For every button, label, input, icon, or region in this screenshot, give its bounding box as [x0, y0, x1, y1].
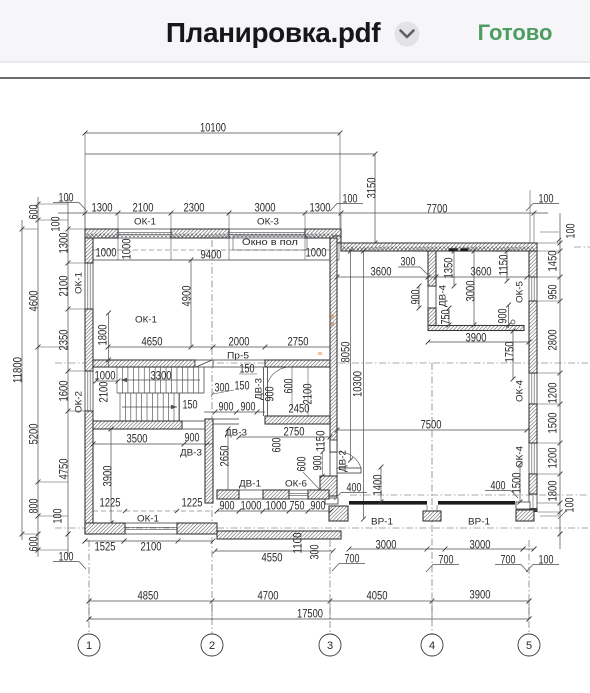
dimension 4850 4700 4050 3900 axis row: [89, 600, 529, 602]
svg-text:2100: 2100: [133, 200, 154, 214]
svg-text:3000: 3000: [376, 537, 397, 551]
svg-text:ОК-1: ОК-1: [137, 514, 159, 525]
svg-text:600: 600: [281, 378, 295, 393]
dashed line 9400: [93, 249, 330, 251]
svg-text:900: 900: [311, 498, 326, 512]
svg-text:1000: 1000: [95, 368, 116, 382]
page top rule: [0, 77, 590, 79]
svg-text:2650: 2650: [217, 445, 231, 466]
door ДВ-3 second opening: [213, 418, 239, 420]
svg-text:2100: 2100: [96, 381, 110, 402]
dimension 3900 room rotated: [110, 429, 112, 523]
axis line 2 vertical: [211, 240, 213, 634]
axis circle 1: [78, 634, 100, 656]
svg-text:4650: 4650: [142, 334, 163, 348]
axis circle 3: [319, 634, 341, 656]
wall junction piece top: [333, 236, 341, 243]
svg-text:750: 750: [438, 309, 452, 324]
svg-text:1300: 1300: [310, 200, 331, 214]
svg-text:300: 300: [307, 544, 321, 559]
gate lintel ВР-1 right part: [438, 501, 515, 505]
svg-text:3000: 3000: [463, 280, 477, 301]
door ДВ-3 opening in top wall: [182, 420, 205, 422]
dimension 3900 below bathroom: [428, 341, 529, 343]
wall exterior right pier top: [529, 251, 537, 277]
svg-text:1400: 1400: [370, 474, 384, 495]
svg-text:1000: 1000: [266, 498, 287, 512]
dimension 3000 bathroom rotated: [473, 251, 475, 325]
svg-text:100: 100: [563, 223, 577, 238]
svg-text:1200: 1200: [545, 382, 559, 403]
dimension 1350 1150 rotated: [453, 251, 455, 286]
svg-text:2800: 2800: [545, 329, 559, 350]
window ОК-4 right wall upper: [528, 373, 530, 404]
chevron button: [395, 22, 420, 47]
svg-text:ВР-1: ВР-1: [371, 517, 393, 528]
dimension 1750 rotated: [512, 331, 514, 379]
svg-text:3000: 3000: [255, 200, 276, 214]
svg-text:4: 4: [429, 640, 435, 652]
window ОК-5 right wall: [528, 277, 530, 301]
svg-text:7500: 7500: [421, 417, 442, 431]
dimension 2750 corridor: [239, 436, 330, 438]
svg-text:300: 300: [401, 254, 416, 268]
axis circle 4: [421, 634, 443, 656]
svg-text:3300: 3300: [151, 368, 172, 382]
wall exterior left lower pier: [85, 411, 93, 534]
svg-text:150: 150: [240, 361, 255, 375]
svg-text:11800: 11800: [10, 357, 24, 383]
svg-text:150: 150: [183, 397, 198, 411]
wall exterior left middle pier: [85, 309, 93, 371]
svg-text:1100: 1100: [290, 532, 304, 553]
right fine dimension column: [559, 213, 561, 549]
door ДВ-4 opening: [427, 286, 429, 308]
dimension 3150 vertical: [85, 153, 375, 155]
stairs upper flight: [116, 367, 118, 393]
svg-text:600: 600: [26, 204, 40, 219]
svg-text:2350: 2350: [56, 329, 70, 350]
svg-text:4850: 4850: [138, 588, 159, 602]
svg-text:ДВ-1: ДВ-1: [239, 479, 261, 490]
stair break box in wall: [195, 360, 213, 367]
svg-text:2000: 2000: [229, 334, 250, 348]
svg-text:2450: 2450: [289, 401, 310, 415]
wall exterior bottom pier 2: [177, 523, 217, 534]
svg-text:2300: 2300: [184, 200, 205, 214]
svg-text:3900: 3900: [466, 330, 487, 344]
svg-text:1450: 1450: [545, 250, 559, 271]
wall interior horizontal Б left part: [93, 360, 195, 367]
svg-text:600: 600: [269, 437, 283, 452]
vent marks top wall: [449, 248, 458, 251]
left middle dimension column: [37, 197, 39, 557]
svg-text:ДВ-4: ДВ-4: [438, 284, 449, 307]
svg-text:Планировка.pdf: Планировка.pdf: [166, 17, 381, 48]
window ОК-2 left wall: [84, 371, 86, 411]
svg-text:3900: 3900: [100, 465, 114, 486]
axis А horizontal: [55, 527, 588, 529]
axis line 1 vertical: [88, 540, 90, 634]
svg-text:3000: 3000: [470, 537, 491, 551]
window ОК-3 top: [229, 228, 305, 230]
window ОК-4 right wall lower: [528, 443, 530, 474]
svg-text:1750: 1750: [502, 341, 516, 362]
label 100 right rotated: [540, 231, 559, 233]
svg-text:1000: 1000: [306, 245, 327, 259]
gates level dashed line: [350, 494, 588, 496]
stairs walk line lower with arrow: [122, 406, 177, 408]
svg-text:ОК-1: ОК-1: [135, 315, 157, 326]
dimension 4550: [215, 550, 333, 552]
stairs lower flight: [119, 393, 121, 421]
svg-text:ОК-5: ОК-5: [515, 281, 526, 303]
dimension 3000 3000 bottom: [349, 548, 534, 550]
svg-text:900: 900: [219, 399, 234, 413]
closet partition and door ДВ-3 leaf: [263, 367, 265, 416]
wall entrance pier mid: [263, 490, 289, 499]
svg-text:100: 100: [562, 497, 576, 512]
svg-text:1350: 1350: [441, 257, 455, 278]
dimension 900 opening rotated: [508, 305, 510, 328]
svg-text:4900: 4900: [179, 285, 193, 306]
dimension 2650 rotated: [227, 429, 229, 497]
wall white segment above ДВ-2: [330, 440, 337, 452]
svg-text:ОК-3: ОК-3: [257, 217, 279, 228]
wall exterior left upper pier: [85, 238, 93, 263]
porch slab edge: [217, 531, 341, 539]
insulation zigzag top wall: [86, 234, 338, 238]
door ДВ-1 opening: [239, 489, 263, 491]
axis stub top right: [574, 246, 590, 248]
wall exterior top right section: [341, 243, 537, 251]
dimension 400 1400 left gate: [380, 467, 382, 502]
svg-text:3150: 3150: [364, 177, 378, 198]
dimension 4900 vertical: [190, 260, 192, 347]
svg-text:1300: 1300: [92, 200, 113, 214]
dimension 900 door rotated: [418, 286, 420, 308]
svg-text:1225: 1225: [100, 495, 121, 509]
wall central vertical lower pier: [320, 476, 337, 496]
wall exterior right pier bottom: [529, 474, 537, 494]
dimension 10300 rotated: [363, 251, 365, 519]
svg-text:ОК-4: ОК-4: [515, 379, 526, 402]
dimension 8050 rotated: [350, 251, 352, 460]
svg-text:2750: 2750: [288, 334, 309, 348]
svg-text:ОК-6: ОК-6: [285, 479, 307, 490]
svg-text:3600: 3600: [371, 264, 392, 278]
svg-text:600: 600: [294, 456, 308, 471]
pier central bottom: [325, 498, 338, 504]
svg-text:1: 1: [86, 640, 92, 652]
svg-text:ВР-1: ВР-1: [468, 517, 490, 528]
dimension 750 rotated: [448, 308, 450, 325]
svg-text:900: 900: [241, 399, 256, 413]
svg-text:1800: 1800: [545, 480, 559, 501]
svg-text:1000: 1000: [119, 238, 133, 259]
axis line 3 vertical: [329, 540, 331, 634]
wall interior horizontal Б right part: [265, 360, 330, 367]
svg-text:17500: 17500: [297, 606, 323, 620]
wall bathroom bottom horizontal: [428, 326, 524, 331]
closet floor wall: [265, 416, 330, 424]
svg-text:1000: 1000: [241, 498, 262, 512]
svg-text:900: 900: [185, 430, 200, 444]
dimension 1800 vertical: [108, 313, 110, 367]
svg-text:1150: 1150: [496, 254, 510, 275]
dimension 3600 3600 right top: [337, 276, 527, 278]
svg-text:1800: 1800: [95, 324, 109, 345]
gate lintel ВР-1 left part: [349, 501, 427, 505]
svg-text:950: 950: [545, 284, 559, 299]
svg-text:ОК-1: ОК-1: [134, 217, 156, 228]
door ДВ-2 opening: [329, 452, 331, 476]
svg-text:5200: 5200: [26, 423, 40, 444]
door knob circle: [511, 320, 515, 324]
dimension 900 900 under corridor doors: [204, 411, 265, 413]
svg-text:10300: 10300: [350, 371, 364, 397]
wall exterior right pier 3: [529, 404, 537, 443]
svg-text:4700: 4700: [258, 588, 279, 602]
pier right gate corner: [516, 502, 530, 509]
svg-text:900: 900: [408, 289, 422, 304]
stairs walk line upper with arrow: [121, 379, 200, 381]
svg-text:ОК-2: ОК-2: [74, 391, 85, 413]
wall exterior top pier middle: [171, 229, 229, 238]
wall exterior right pier 2: [529, 301, 537, 373]
dimension row 1300-2100-2300-3000-1300 top: [58, 212, 548, 214]
svg-text:600: 600: [26, 536, 40, 551]
window sill inner line top: [93, 259, 339, 261]
svg-text:10100: 10100: [200, 120, 226, 134]
svg-text:3500: 3500: [127, 431, 148, 445]
svg-text:4550: 4550: [262, 550, 283, 564]
svg-text:5: 5: [526, 640, 532, 652]
artifact dots: [331, 314, 334, 319]
svg-text:3900: 3900: [470, 587, 491, 601]
svg-text:3: 3: [327, 640, 333, 652]
svg-text:1300: 1300: [56, 232, 70, 253]
svg-text:1525: 1525: [95, 539, 116, 553]
pier between gates: [423, 511, 441, 521]
svg-text:ДВ-2: ДВ-2: [338, 450, 349, 472]
svg-text:4750: 4750: [56, 458, 70, 479]
opening Пр-5: [213, 359, 265, 361]
dimension 17500 overall bottom: [89, 618, 529, 620]
svg-text:4050: 4050: [367, 588, 388, 602]
window ОК-1 bottom: [125, 522, 177, 524]
wall bathroom left vertical lower: [428, 308, 436, 326]
dashed sill line bottom: [93, 510, 213, 512]
insulation zigzag right top wall: [342, 247, 534, 251]
label Окно в пол: [233, 236, 307, 250]
wall corridor vertical: [205, 419, 213, 503]
svg-text:100: 100: [48, 216, 62, 231]
wall bathroom left vertical upper: [428, 251, 436, 286]
left outer dimension column 11800: [21, 220, 23, 540]
svg-text:750: 750: [290, 498, 305, 512]
dimension 1000 3300 stairs: [96, 380, 118, 382]
window ОК-1 left wall: [84, 263, 86, 309]
svg-text:2: 2: [209, 640, 215, 652]
dimension 1525 2100 bottom: [85, 540, 213, 542]
wall entrance pier right: [308, 490, 329, 499]
svg-text:1500: 1500: [545, 412, 559, 433]
svg-text:2100: 2100: [56, 275, 70, 296]
axis Б horizontal: [55, 362, 588, 364]
svg-text:4600: 4600: [26, 290, 40, 311]
dimension 10100 overall top: [85, 132, 340, 134]
svg-text:2750: 2750: [284, 424, 305, 438]
wall exterior bottom-left pier: [85, 523, 125, 534]
axis line 4 vertical: [431, 363, 433, 634]
svg-text:ДВ-3: ДВ-3: [180, 448, 202, 459]
svg-text:Окно в пол: Окно в пол: [242, 237, 298, 247]
svg-text:150: 150: [235, 378, 250, 392]
svg-text:800: 800: [26, 498, 40, 513]
svg-text:1500: 1500: [509, 472, 523, 493]
svg-text:7700: 7700: [427, 201, 448, 215]
wall central vertical upper: [330, 238, 337, 452]
svg-text:900: 900: [495, 308, 509, 323]
svg-text:ОК-1: ОК-1: [74, 272, 85, 294]
svg-text:1600: 1600: [56, 380, 70, 401]
svg-text:1200: 1200: [545, 447, 559, 468]
svg-text:1150: 1150: [313, 430, 327, 451]
dimension row 900 1000 1000 750 900: [217, 510, 331, 512]
window ОК-6: [289, 489, 308, 491]
dimension 400 1500 right gate: [519, 464, 521, 502]
dimension 3500 900: [93, 443, 213, 445]
svg-text:300: 300: [215, 380, 230, 394]
wall exterior top pier right: [305, 229, 341, 238]
svg-text:Готово: Готово: [478, 20, 553, 45]
svg-text:Пр-5: Пр-5: [227, 351, 249, 362]
top bar background: [0, 0, 590, 62]
svg-text:2100: 2100: [141, 539, 162, 553]
svg-text:900: 900: [262, 386, 276, 401]
svg-text:9400: 9400: [201, 247, 222, 261]
wall entrance pier left: [217, 490, 239, 499]
wall exterior top-left pier: [85, 229, 118, 238]
svg-text:900: 900: [220, 498, 235, 512]
svg-text:8050: 8050: [338, 341, 352, 362]
window ОК-1 top: [118, 228, 171, 230]
dimension 4650 2000 2750: [108, 346, 332, 348]
axis circle 2: [201, 634, 223, 656]
svg-text:1000: 1000: [96, 245, 117, 259]
axis line 5 vertical: [528, 540, 530, 634]
label 2450: [291, 367, 293, 410]
axis circle 5: [518, 634, 540, 656]
wall room bottom-left top: [93, 421, 182, 429]
dimension 7500: [337, 429, 527, 431]
svg-text:1225: 1225: [182, 495, 203, 509]
door ДВ-2 leaf: [337, 468, 361, 473]
left fine dimension column: [67, 197, 69, 557]
